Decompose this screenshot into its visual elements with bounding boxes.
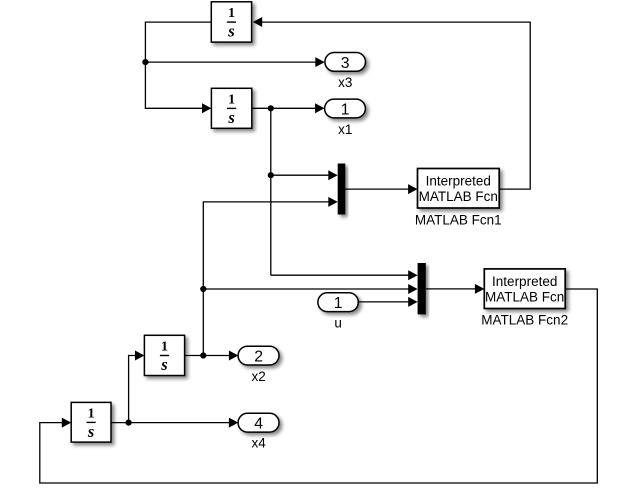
svg-text:x1: x1: [338, 122, 352, 137]
svg-text:x3: x3: [338, 75, 352, 90]
svg-text:1: 1: [88, 407, 95, 422]
svg-text:u: u: [334, 315, 342, 330]
svg-text:MATLAB Fcn1: MATLAB Fcn1: [415, 213, 502, 228]
svg-text:1: 1: [341, 101, 350, 118]
svg-text:2: 2: [254, 349, 263, 366]
svg-text:3: 3: [341, 55, 350, 72]
svg-text:Interpreted: Interpreted: [426, 174, 491, 189]
svg-text:x4: x4: [251, 436, 266, 451]
svg-text:MATLAB Fcn: MATLAB Fcn: [485, 289, 564, 304]
svg-text:Interpreted: Interpreted: [492, 274, 557, 289]
svg-text:1: 1: [228, 6, 235, 21]
svg-text:s: s: [160, 355, 167, 374]
svg-text:1: 1: [334, 295, 343, 312]
svg-text:s: s: [227, 22, 234, 41]
svg-text:s: s: [227, 108, 234, 127]
svg-text:4: 4: [254, 416, 263, 433]
svg-text:MATLAB Fcn: MATLAB Fcn: [419, 189, 498, 204]
svg-text:s: s: [87, 422, 94, 441]
svg-text:MATLAB Fcn2: MATLAB Fcn2: [481, 313, 568, 328]
svg-text:1: 1: [228, 93, 235, 108]
svg-text:x2: x2: [251, 369, 265, 384]
svg-text:1: 1: [161, 340, 168, 355]
